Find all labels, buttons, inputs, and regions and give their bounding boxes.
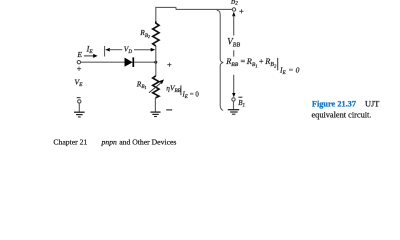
svg-text:VD: VD (124, 45, 133, 56)
figure caption (312, 100, 380, 120)
svg-text:B1: B1 (238, 99, 245, 108)
resistor RB1 variable (153, 76, 159, 98)
svg-text:ηVBB: ηVBB (166, 84, 181, 95)
terminal B1 (232, 98, 235, 101)
minus sign VE bottom (77, 97, 81, 99)
ground B1 (228, 110, 239, 115)
svg-text:pnpn: pnpn (101, 137, 118, 146)
svg-text:Chapter 21: Chapter 21 (53, 137, 87, 146)
wire diode to node (134, 61, 156, 63)
wire RB2 top to B2 (156, 7, 232, 21)
svg-text:RB2: RB2 (139, 28, 150, 39)
node junction dot (154, 61, 157, 64)
VD dimension right arrow (151, 48, 156, 52)
variable resistor arrow RB1 (149, 79, 164, 92)
VBB arrow line lower (233, 75, 235, 94)
minus sign RB1 bottom (166, 109, 172, 111)
svg-text:IE=0: IE=0 (279, 66, 300, 77)
terminal E (77, 61, 80, 64)
terminal circle above ground E (78, 100, 81, 103)
VD dimension left arrow (105, 48, 110, 52)
svg-text:Figure 21.37: Figure 21.37 (312, 100, 356, 109)
svg-text:equivalent circuit.: equivalent circuit. (312, 110, 372, 119)
VBB arrow line middle (233, 50, 235, 56)
brace RBB (217, 10, 223, 110)
terminal B2 (232, 8, 235, 11)
wire node down to RB1 (155, 62, 157, 76)
svg-text:VBB: VBB (227, 37, 240, 49)
VD dimension left tick (104, 46, 106, 57)
minus sign B1 (238, 96, 242, 98)
svg-text:IE: IE (86, 44, 94, 55)
VD dimension left line (109, 49, 122, 51)
svg-text:IE= 0: IE= 0 (182, 91, 200, 99)
current arrow IE (84, 54, 98, 58)
equation evaluation bar (277, 58, 279, 71)
wire E to diode (81, 61, 125, 63)
VBB arrow down head (232, 93, 235, 97)
wire B1 to ground (233, 101, 235, 109)
diode D cathode bar (132, 57, 134, 67)
wire RB1 to ground (154, 98, 156, 112)
ground RB1 (150, 112, 160, 116)
svg-text:RB1: RB1 (136, 79, 147, 90)
page footer chapter line (53, 137, 176, 146)
VBB arrow up head (232, 12, 235, 17)
resistor RB2 (153, 21, 159, 46)
svg-text:B2: B2 (231, 0, 238, 7)
svg-text:+: + (77, 63, 82, 73)
VD dimension right line (134, 49, 151, 51)
VBB arrow line upper (233, 16, 235, 36)
svg-text:UJT: UJT (365, 100, 379, 109)
svg-text:RBB=RB1+RB2: RBB=RB1+RB2 (225, 57, 277, 68)
svg-text:VE: VE (74, 77, 83, 88)
svg-text:+: + (167, 59, 172, 69)
wire E circle to ground (78, 103, 80, 112)
ground E (74, 112, 85, 117)
svg-text:E: E (76, 50, 82, 59)
diode D anode triangle (125, 58, 133, 67)
wire node up to RB2 (155, 46, 157, 62)
svg-text:+: + (239, 6, 244, 16)
svg-text:and Other Devices: and Other Devices (119, 137, 176, 146)
eta VBB evaluation bar (180, 85, 182, 95)
